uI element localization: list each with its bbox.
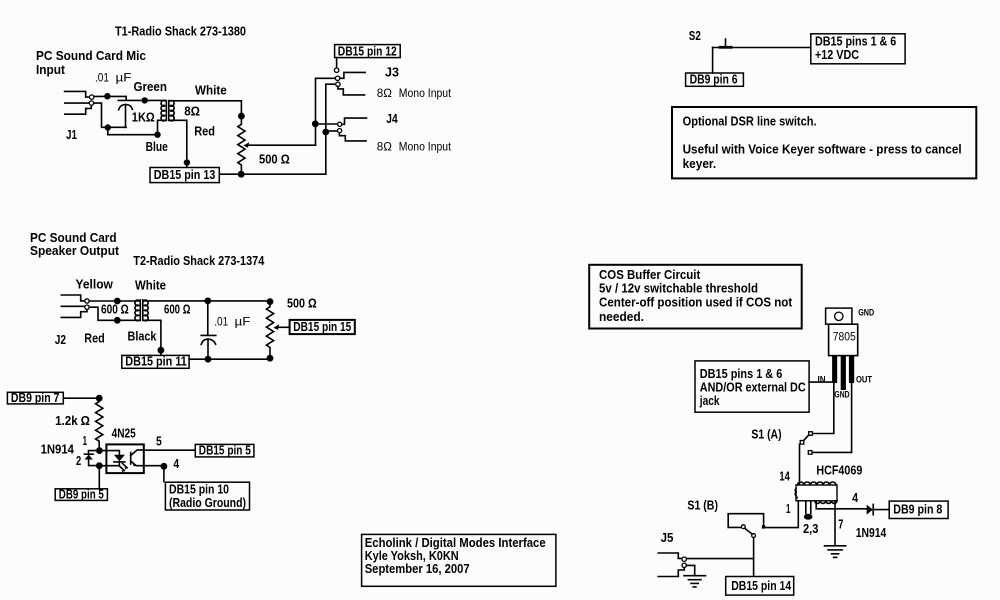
node junction dot on blue rail bbox=[154, 132, 160, 138]
label 500 ohm (speaker pot) bbox=[287, 296, 317, 310]
switch S1 (B) bbox=[728, 514, 765, 538]
node dot at resistor top bbox=[96, 395, 103, 402]
node junction dot above DB15 pin 13 box bbox=[184, 159, 190, 165]
svg-text:T2-Radio Shack 273-1374: T2-Radio Shack 273-1374 bbox=[133, 254, 264, 268]
node pot top dot bbox=[238, 113, 245, 120]
ground (IC pin 7) bbox=[825, 546, 846, 558]
svg-text:.01: .01 bbox=[95, 71, 109, 85]
wire pin 5 to DB15 pin 5 bbox=[144, 449, 196, 451]
svg-text:J1: J1 bbox=[66, 128, 77, 142]
svg-text:600 Ω: 600 Ω bbox=[164, 302, 190, 316]
svg-text:1.2k: 1.2k bbox=[55, 414, 78, 428]
wire pin 7 to ground bbox=[834, 501, 836, 546]
wire T2 secondary top to pot (White) bbox=[144, 300, 270, 302]
label S1 (B) bbox=[687, 498, 718, 512]
svg-text:5v / 12v switchable threshold: 5v / 12v switchable threshold bbox=[599, 281, 758, 295]
transformer T2 bbox=[135, 300, 148, 321]
label Blue bbox=[146, 140, 168, 154]
svg-text:DB9 pin 7: DB9 pin 7 bbox=[11, 391, 60, 405]
wire J1 tip to transformer (top) bbox=[94, 96, 165, 100]
svg-text:Kyle Yoksh, K0KN: Kyle Yoksh, K0KN bbox=[365, 549, 459, 563]
label pin 2 bbox=[76, 454, 81, 468]
node J1 tip contact (open circle) bbox=[90, 95, 94, 99]
node bus1 dot to J4 bbox=[312, 120, 319, 127]
svg-text:J4: J4 bbox=[386, 112, 397, 126]
wire T1 secondary top (White) to pot bbox=[170, 101, 241, 113]
label White (T2) bbox=[135, 279, 166, 293]
svg-text:DB15 pins 1 & 6: DB15 pins 1 & 6 bbox=[815, 34, 896, 48]
wire J5 ring to ground bbox=[687, 565, 695, 575]
label pin 5 bbox=[156, 435, 162, 449]
optocoupler U1 4N25 bbox=[99, 444, 144, 473]
svg-text:Black: Black bbox=[128, 330, 157, 344]
box DB15 pin 14 bbox=[726, 577, 794, 596]
connector J4 (8 ohm mono input) bbox=[338, 118, 367, 141]
label 1K ohm primary bbox=[132, 110, 155, 124]
node junction dot on mic wire bbox=[104, 93, 110, 99]
svg-text:4: 4 bbox=[852, 491, 858, 505]
svg-text:White: White bbox=[135, 279, 166, 293]
svg-text:µF: µF bbox=[235, 315, 251, 329]
wire HCF4069 pin 1 to S1B bbox=[765, 501, 798, 528]
node J1 ring contact (open circle) bbox=[89, 101, 93, 105]
label J4 bbox=[386, 112, 397, 126]
svg-text:IN: IN bbox=[818, 374, 826, 385]
label J5 bbox=[661, 531, 674, 545]
svg-text:J3: J3 bbox=[385, 66, 399, 80]
svg-text:Center-off position used if CO: Center-off position used if COS not bbox=[599, 296, 793, 310]
node dot pin2 junction bbox=[96, 462, 103, 469]
svg-text:Red: Red bbox=[84, 332, 104, 346]
label OUT bbox=[856, 374, 872, 385]
wire DB15 pin 13 rail to sleeve bus bbox=[219, 173, 325, 175]
label GND (pin) bbox=[834, 390, 849, 401]
label 7805 bbox=[833, 330, 856, 344]
node dot cap to rail bbox=[205, 356, 212, 363]
svg-text:14: 14 bbox=[779, 470, 789, 484]
label Black bbox=[128, 330, 157, 344]
svg-text:DB9 pin 6: DB9 pin 6 bbox=[690, 73, 738, 87]
svg-text:8Ω: 8Ω bbox=[377, 86, 392, 100]
label HCF4069 bbox=[816, 464, 862, 478]
label 1N914 bbox=[41, 442, 74, 456]
wire bus1 (tip bus) bbox=[316, 78, 336, 145]
svg-text:Mono Input: Mono Input bbox=[399, 86, 452, 100]
box DB9 pin 5 bbox=[55, 487, 107, 501]
svg-text:1N914: 1N914 bbox=[41, 442, 74, 456]
svg-text:Echolink / Digital Modes Inter: Echolink / Digital Modes Interface bbox=[365, 536, 546, 550]
node bus2 dot to J4 bbox=[322, 129, 329, 136]
resistor 500 ohm pot (mic) bbox=[238, 113, 245, 174]
node dot on red wire bbox=[114, 317, 121, 324]
svg-text:+12 VDC: +12 VDC bbox=[815, 48, 859, 62]
svg-text:1: 1 bbox=[83, 434, 87, 448]
svg-text:7805: 7805 bbox=[833, 330, 856, 344]
svg-text:DB15 pin 13: DB15 pin 13 bbox=[154, 168, 216, 182]
box DB15 pin 11 bbox=[122, 355, 189, 369]
svg-text:600 Ω: 600 Ω bbox=[101, 303, 129, 317]
label PC Sound Card Mic Input bbox=[36, 49, 146, 77]
node pot2 bottom dot bbox=[267, 355, 274, 362]
svg-text:GND: GND bbox=[834, 390, 849, 401]
label 500 ohm (mic pot) bbox=[259, 152, 290, 166]
svg-text:DB9 pin 5: DB9 pin 5 bbox=[59, 487, 104, 501]
svg-text:Ω: Ω bbox=[81, 414, 90, 428]
node J5 ring contact bbox=[682, 563, 686, 567]
label .01 uF bbox=[95, 71, 132, 85]
label 4N25 bbox=[112, 427, 136, 441]
label pin 1 (IC) bbox=[786, 502, 790, 516]
svg-text:Green: Green bbox=[134, 80, 167, 94]
svg-text:COS Buffer Circuit: COS Buffer Circuit bbox=[599, 268, 701, 282]
svg-text:keyer.: keyer. bbox=[683, 157, 717, 171]
capacitor C1 .01uF (curved plate and lead) bbox=[119, 105, 133, 128]
label pin 4 bbox=[173, 457, 179, 471]
label Green bbox=[134, 80, 167, 94]
box DB15 pin 12 bbox=[335, 45, 401, 59]
label T1 title bbox=[115, 24, 246, 38]
svg-text:5: 5 bbox=[156, 435, 162, 449]
wire rail to transformer primary bottom (Blue) bbox=[108, 120, 165, 134]
box DB9 pin 8 bbox=[889, 501, 948, 518]
svg-text:500 Ω: 500 Ω bbox=[287, 296, 317, 310]
label PC Sound Card Speaker Output bbox=[30, 231, 120, 258]
node J2 tip contact bbox=[85, 299, 89, 303]
svg-text:GND: GND bbox=[858, 308, 874, 319]
wire J2 tip to T2 primary top (Yellow) bbox=[89, 300, 139, 302]
label pin 14 bbox=[779, 470, 789, 484]
svg-text:500 Ω: 500 Ω bbox=[259, 152, 290, 166]
box DB15 pins 1 & 6 AND/OR external DC jack bbox=[695, 361, 809, 412]
label pin 1 bbox=[83, 434, 87, 448]
svg-text:Red: Red bbox=[194, 124, 215, 138]
label T2 title bbox=[133, 254, 264, 268]
svg-text:DB15 pin 5: DB15 pin 5 bbox=[199, 443, 251, 457]
svg-text:.01: .01 bbox=[214, 315, 228, 329]
svg-text:S1 (A): S1 (A) bbox=[751, 427, 781, 441]
svg-text:HCF4069: HCF4069 bbox=[816, 464, 862, 478]
svg-text:PC Sound Card Mic: PC Sound Card Mic bbox=[36, 49, 146, 63]
wire bottom rail DB15 pin 11 to pot bbox=[189, 358, 270, 360]
label J2 bbox=[55, 333, 66, 347]
regulator U2 7805 bbox=[826, 308, 858, 390]
capacitor C2 .01uF bbox=[201, 301, 216, 359]
svg-text:8Ω: 8Ω bbox=[377, 140, 392, 154]
node dot pin1 junction bbox=[96, 447, 103, 454]
label White bbox=[195, 84, 227, 98]
wire pin 4 to DB15 pin 10 bbox=[144, 466, 164, 482]
wire T1 secondary bottom (Red) to DB15 pin 13 bbox=[170, 120, 187, 167]
wire pin 4 to diode bbox=[816, 501, 866, 509]
label 8 ohm Mono Input (J3) bbox=[377, 86, 452, 100]
wire J5 tip to S1B pole bbox=[687, 558, 754, 560]
svg-text:µF: µF bbox=[116, 71, 132, 85]
svg-text:Mono Input: Mono Input bbox=[399, 140, 452, 154]
svg-text:(Radio Ground): (Radio Ground) bbox=[169, 496, 246, 510]
svg-text:DB15 pin 12: DB15 pin 12 bbox=[338, 45, 397, 59]
svg-text:DB15 pin 15: DB15 pin 15 bbox=[293, 320, 351, 334]
box DB15 pin 15 bbox=[290, 320, 355, 334]
label 600 ohm secondary bbox=[164, 302, 190, 316]
svg-text:2,3: 2,3 bbox=[803, 522, 818, 536]
svg-text:J2: J2 bbox=[55, 333, 66, 347]
svg-text:September 16, 2007: September 16, 2007 bbox=[365, 562, 470, 576]
box DB9 pin 7 bbox=[7, 391, 63, 405]
box Echolink title bbox=[362, 534, 556, 586]
wire 7805 OUT to S1A throw 2 bbox=[812, 383, 852, 452]
IC U3 HCF4069 bbox=[795, 482, 837, 503]
svg-text:OUT: OUT bbox=[856, 374, 872, 385]
label 8 ohm secondary bbox=[184, 105, 200, 119]
box DB15 pin 13 bbox=[150, 168, 219, 183]
label pin 7 (IC) bbox=[838, 518, 843, 532]
node dot pin 4 bbox=[161, 463, 168, 470]
label 1.2k ohm bbox=[55, 414, 90, 428]
svg-text:2: 2 bbox=[76, 454, 81, 468]
label J3 bbox=[385, 66, 399, 80]
svg-text:7: 7 bbox=[838, 518, 843, 532]
svg-text:DB15 pin 10: DB15 pin 10 bbox=[169, 483, 229, 497]
label 600 ohm primary bbox=[101, 303, 129, 317]
node pot2 top dot bbox=[267, 298, 274, 305]
label .01 uF (C2) bbox=[214, 315, 250, 329]
box DB15 pin 5 bbox=[195, 443, 254, 457]
box DB9 pin 6 bbox=[686, 73, 744, 87]
node dot on yellow wire bbox=[114, 298, 121, 305]
svg-text:S2: S2 bbox=[689, 29, 701, 43]
svg-text:S1 (B): S1 (B) bbox=[687, 498, 718, 512]
svg-text:Blue: Blue bbox=[146, 140, 168, 154]
label S1 (A) bbox=[751, 427, 781, 441]
label IN bbox=[818, 374, 826, 385]
connector J1 (mic jack) bbox=[65, 91, 92, 114]
svg-text:4: 4 bbox=[173, 457, 179, 471]
switch S1 (A) bbox=[800, 432, 812, 455]
svg-text:1N914: 1N914 bbox=[856, 526, 887, 540]
resistor 1.2k bbox=[96, 398, 103, 448]
node J5 tip contact bbox=[682, 557, 686, 561]
wire DB9 pin 7 to resistor bbox=[63, 397, 99, 399]
box COS Buffer note bbox=[589, 265, 802, 329]
wire 7805 IN to S1A throw 1 bbox=[812, 383, 833, 434]
switch S2 (pushbutton) bbox=[713, 39, 811, 48]
wire bus1 to J4 tip bbox=[316, 123, 338, 125]
label Red (J2) bbox=[84, 332, 104, 346]
wire pot wiper to J3/J4 bus bbox=[243, 142, 315, 148]
box Optional DSR note bbox=[672, 107, 976, 178]
svg-text:DB15 pins 1 & 6: DB15 pins 1 & 6 bbox=[700, 367, 783, 381]
label pins 2,3 bbox=[803, 522, 818, 536]
wire bus2 (sleeve bus) bbox=[326, 84, 336, 174]
label S2 bbox=[689, 29, 701, 43]
svg-text:8Ω: 8Ω bbox=[184, 105, 200, 119]
box DB15 pins 1 & 6 +12 VDC bbox=[811, 34, 905, 64]
wire J1 ring to ground rail bbox=[94, 103, 127, 127]
label Yellow bbox=[76, 278, 114, 292]
svg-text:AND/OR external DC: AND/OR external DC bbox=[700, 381, 806, 395]
ground (J5) bbox=[684, 576, 706, 587]
svg-text:J5: J5 bbox=[661, 531, 674, 545]
connector J2 (speaker jack) bbox=[61, 295, 87, 317]
svg-text:jack: jack bbox=[699, 394, 720, 408]
connector J5 bbox=[658, 553, 684, 577]
wire S2 to DB9 pin 6 bbox=[712, 48, 714, 73]
node pot bottom dot bbox=[238, 171, 245, 178]
svg-text:Useful with Voice Keyer softwa: Useful with Voice Keyer software - press… bbox=[683, 142, 962, 156]
svg-text:Yellow: Yellow bbox=[76, 278, 114, 292]
node junction dot before transformer bbox=[142, 97, 148, 103]
label Red bbox=[194, 124, 215, 138]
label 1N914 (D2) bbox=[856, 526, 887, 540]
node dot on white wire (cap tap) bbox=[204, 298, 211, 305]
node junction dot on lower rail bbox=[105, 124, 111, 130]
svg-text:1: 1 bbox=[786, 502, 790, 516]
diode D1 1N914 (reverse protection) bbox=[84, 451, 99, 466]
wire T2 secondary bottom to DB15 pin 11 (Black) bbox=[144, 320, 161, 355]
node J2 ring contact bbox=[85, 305, 89, 309]
pins 2,3 tied (stubs and blob) bbox=[804, 501, 813, 520]
label GND (tab) bbox=[858, 308, 874, 319]
svg-text:needed.: needed. bbox=[599, 310, 644, 324]
svg-text:Optional DSR line switch.: Optional DSR line switch. bbox=[683, 115, 817, 129]
transformer T1 bbox=[161, 100, 174, 121]
wire S1B pole to DB15 pin 14 bbox=[753, 538, 755, 577]
svg-text:T1-Radio Shack 273-1380: T1-Radio Shack 273-1380 bbox=[115, 24, 246, 38]
svg-text:1KΩ: 1KΩ bbox=[132, 110, 155, 124]
svg-text:DB15 pin 11: DB15 pin 11 bbox=[125, 355, 187, 369]
label pin 4 (IC) bbox=[852, 491, 858, 505]
wire J2 ring to T2 primary bottom (Red) bbox=[89, 307, 139, 320]
label 8 ohm Mono Input (J4) bbox=[377, 140, 452, 154]
wire S1A pole to HCF4069 pin 14 bbox=[799, 444, 801, 484]
wire bus2 to J4 sleeve bbox=[326, 130, 338, 132]
svg-text:DB9 pin 8: DB9 pin 8 bbox=[893, 503, 942, 517]
connector J3 (8 ohm mono input) bbox=[334, 68, 365, 95]
wire pot2 wiper to DB15 pin 15 bbox=[273, 324, 289, 330]
label J1 bbox=[66, 128, 77, 142]
box DB15 pin 10 (Radio Ground) bbox=[165, 482, 249, 510]
svg-text:4N25: 4N25 bbox=[112, 427, 136, 441]
node dot above DB15 pin 11 bbox=[158, 347, 165, 354]
svg-text:Input: Input bbox=[36, 63, 66, 77]
wire pin 2 to DB9 pin 5 bbox=[98, 466, 100, 489]
svg-text:White: White bbox=[195, 84, 227, 98]
diode D2 1N914 bbox=[867, 504, 890, 514]
resistor 500 ohm pot (speaker) bbox=[266, 301, 273, 358]
wire DB15 pin 12 to J3 switch contact bbox=[336, 58, 338, 68]
svg-text:DB15 pin 14: DB15 pin 14 bbox=[731, 579, 791, 593]
wire DC box to 7805 IN bbox=[809, 381, 832, 383]
svg-text:Speaker Output: Speaker Output bbox=[30, 244, 120, 258]
